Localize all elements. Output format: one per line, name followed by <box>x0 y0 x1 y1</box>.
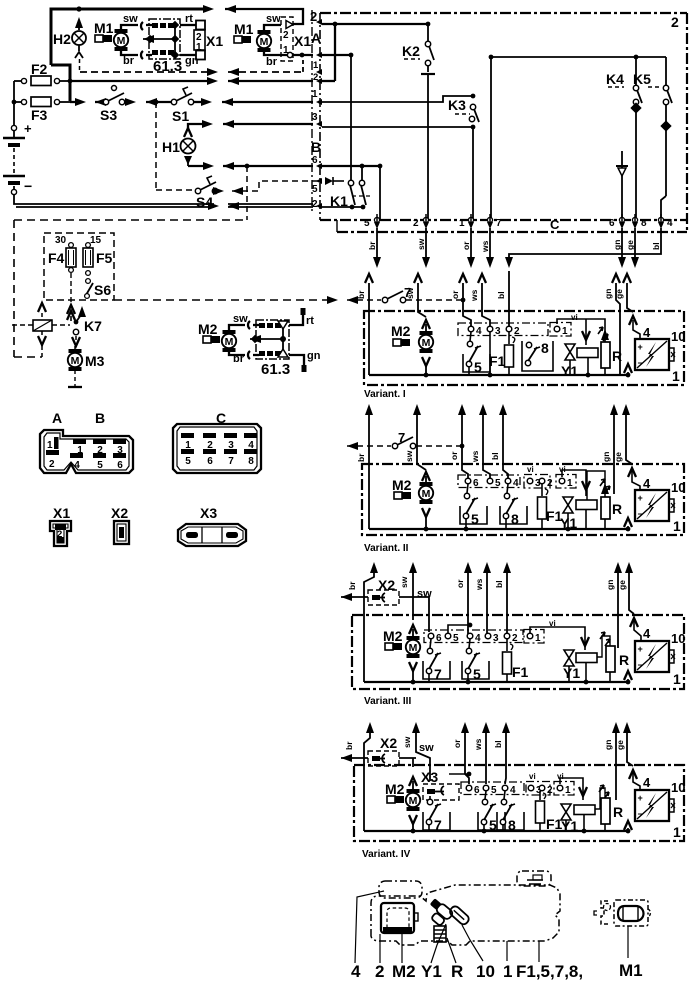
svg-text:ws: ws <box>469 289 479 302</box>
relay K7 <box>38 303 46 312</box>
wire: battery return bottom double line <box>14 195 214 207</box>
switch 7 row variant II <box>347 442 358 450</box>
box 2 border <box>320 13 687 232</box>
svg-text:1: 1 <box>185 440 191 451</box>
switch 7 row variant I <box>347 299 381 301</box>
svg-text:4: 4 <box>643 476 651 491</box>
svg-text:gn: gn <box>612 240 622 250</box>
terminal strip IV <box>461 782 524 795</box>
svg-text:Variant. III: Variant. III <box>364 696 411 707</box>
resistor R III <box>606 646 615 672</box>
svg-text:br: br <box>347 581 357 590</box>
svg-text:vi: vi <box>529 772 536 781</box>
valve Y1 IV <box>561 804 571 820</box>
bundle III wire labels <box>347 576 627 591</box>
svg-text:10: 10 <box>671 780 685 795</box>
svg-text:bl: bl <box>651 242 661 250</box>
svg-text:sw: sw <box>123 13 138 25</box>
svg-text:rt: rt <box>306 315 314 327</box>
svg-text:R: R <box>612 348 622 364</box>
svg-text:10: 10 <box>671 631 685 646</box>
resistor R IV <box>601 798 610 824</box>
wire: row 166 H1 bottom <box>188 165 208 167</box>
svg-text:10: 10 <box>671 329 685 344</box>
svg-text:br: br <box>123 55 135 67</box>
wire ws down <box>489 332 491 375</box>
bundle II wires <box>369 408 632 529</box>
Y1 plugs <box>423 897 454 927</box>
wire: dashed row 72 <box>80 71 213 73</box>
svg-text:1: 1 <box>283 45 289 56</box>
svg-text:2: 2 <box>283 30 289 41</box>
svg-text:or: or <box>452 739 462 748</box>
wire: row 102 S3 S1 <box>70 101 313 103</box>
bundle IV up arrows <box>366 722 374 733</box>
svg-text:M1: M1 <box>619 961 643 980</box>
svg-text:6: 6 <box>312 155 318 166</box>
svg-text:X2: X2 <box>111 505 128 521</box>
terminal strip II <box>458 475 520 488</box>
svg-text:15: 15 <box>90 235 102 246</box>
resistor R II <box>601 497 610 519</box>
inner dashed box <box>44 233 114 300</box>
svg-text:M2: M2 <box>383 628 403 644</box>
switch S6 <box>86 271 91 276</box>
svg-text:3: 3 <box>493 633 499 644</box>
svg-text:B: B <box>95 410 105 426</box>
svg-text:5: 5 <box>185 456 191 467</box>
svg-text:K2: K2 <box>402 43 420 59</box>
svg-text:gn: gn <box>601 452 611 462</box>
wire: K4/K5 feed row <box>491 56 666 58</box>
resistor R <box>598 327 608 341</box>
wire: row 204/207 to strip <box>208 202 219 210</box>
svg-text:4: 4 <box>248 440 254 451</box>
svg-text:−: − <box>24 178 32 194</box>
svg-text:sw: sw <box>266 13 281 25</box>
svg-text:K4: K4 <box>606 71 624 87</box>
svg-text:3: 3 <box>117 445 123 456</box>
box variant IV <box>354 765 684 841</box>
M2 housing <box>381 903 414 933</box>
svg-text:10: 10 <box>476 962 495 981</box>
svg-text:4: 4 <box>351 962 361 981</box>
svg-text:sw: sw <box>402 736 412 748</box>
bundle III up arrows <box>370 562 378 573</box>
wires C pins down to arrows <box>377 228 661 259</box>
switch 5 <box>470 332 471 341</box>
svg-text:X3: X3 <box>421 769 438 785</box>
svg-text:M1: M1 <box>234 21 254 37</box>
bus IV <box>364 830 628 832</box>
svg-text:vi: vi <box>549 619 556 628</box>
wiper unit outline <box>371 885 560 945</box>
svg-text:S6: S6 <box>94 282 111 298</box>
switch 8 <box>522 341 553 371</box>
fuse F1 III <box>506 639 508 651</box>
svg-text:R: R <box>613 804 623 820</box>
svg-text:2: 2 <box>375 962 384 981</box>
svg-text:gn: gn <box>307 350 321 362</box>
svg-text:Y1: Y1 <box>563 665 580 681</box>
fuse F1 IV <box>539 791 541 800</box>
svg-text:7: 7 <box>404 285 411 300</box>
svg-text:2: 2 <box>49 459 55 470</box>
bus I <box>369 374 628 376</box>
svg-text:rt: rt <box>185 13 193 25</box>
svg-text:X1: X1 <box>294 33 311 49</box>
svg-text:4: 4 <box>475 633 481 644</box>
svg-text:+: + <box>24 121 32 136</box>
svg-text:sw: sw <box>399 576 409 588</box>
svg-text:8: 8 <box>511 511 519 527</box>
terminal strip III <box>424 630 523 643</box>
relay coil I <box>577 348 598 358</box>
wire: middle tap <box>143 35 154 43</box>
svg-text:1: 1 <box>673 518 681 534</box>
svg-text:vi: vi <box>571 313 578 322</box>
svg-text:gn: gn <box>185 55 199 67</box>
svg-text:61.3: 61.3 <box>153 58 182 75</box>
switch 7 IV <box>429 796 431 801</box>
bundle II wire labels <box>356 450 623 463</box>
svg-text:2: 2 <box>547 785 553 796</box>
box variant I <box>364 311 684 385</box>
switch 5 II <box>467 484 468 493</box>
svg-text:1: 1 <box>313 60 319 71</box>
svg-text:1: 1 <box>562 326 568 337</box>
svg-text:4: 4 <box>510 785 516 796</box>
wire: motor top to connector <box>264 25 281 30</box>
svg-text:8: 8 <box>641 218 647 229</box>
svg-text:F2: F2 <box>31 61 48 77</box>
wire colour labels under C <box>367 238 661 253</box>
svg-text:1: 1 <box>77 445 83 456</box>
strip pin marks <box>316 19 322 209</box>
svg-text:or: or <box>455 579 465 588</box>
leader lines <box>355 891 539 963</box>
svg-text:1: 1 <box>312 89 318 100</box>
ground <box>74 370 76 386</box>
svg-text:sw: sw <box>404 450 414 462</box>
svg-text:2: 2 <box>97 445 103 456</box>
switch 7 III <box>430 639 431 648</box>
svg-text:F1: F1 <box>489 353 506 369</box>
svg-text:gn: gn <box>605 580 615 590</box>
svg-text:ws: ws <box>474 578 484 591</box>
svg-text:5: 5 <box>495 478 501 489</box>
relay coil IV <box>574 805 595 815</box>
relay coil II <box>576 500 597 510</box>
svg-text:30: 30 <box>55 235 67 246</box>
internal bus y24 <box>322 23 428 25</box>
svg-text:X3: X3 <box>200 505 217 521</box>
valve Y1 II <box>563 497 573 513</box>
svg-text:F1,5,7,8,: F1,5,7,8, <box>516 962 583 981</box>
box variant II <box>362 464 684 535</box>
svg-text:5: 5 <box>97 460 103 471</box>
svg-text:2: 2 <box>514 326 520 337</box>
svg-text:ws: ws <box>480 240 490 253</box>
bundle I chevrons <box>365 274 373 283</box>
svg-text:6: 6 <box>473 478 479 489</box>
svg-text:4: 4 <box>643 775 651 790</box>
svg-text:H1: H1 <box>162 139 180 155</box>
svg-text:br: br <box>266 56 278 68</box>
svg-text:7: 7 <box>496 218 502 229</box>
bundle III wires <box>364 566 634 682</box>
labels row <box>351 962 583 981</box>
diode on row 181 <box>325 177 333 185</box>
fuse F1 II <box>541 484 543 496</box>
wire pin1 to relay <box>585 319 587 345</box>
svg-text:3: 3 <box>228 440 234 451</box>
svg-text:bl: bl <box>496 291 506 299</box>
relay coil III <box>576 653 597 663</box>
wire: H2 to dashed row <box>79 59 81 71</box>
svg-text:sw: sw <box>419 742 434 754</box>
svg-text:K7: K7 <box>84 318 102 334</box>
svg-text:1: 1 <box>673 671 681 687</box>
svg-text:A: A <box>311 30 321 46</box>
svg-text:or: or <box>450 290 460 299</box>
wire: motor to coil box <box>121 22 152 59</box>
svg-text:61.3: 61.3 <box>261 361 290 378</box>
svg-text:M2: M2 <box>392 477 412 493</box>
svg-text:S3: S3 <box>100 107 117 123</box>
relay K3 <box>322 96 473 102</box>
svg-text:bl: bl <box>490 452 500 460</box>
svg-text:K3: K3 <box>448 97 466 113</box>
svg-text:sw: sw <box>233 313 248 325</box>
svg-text:sw: sw <box>417 588 432 600</box>
valve Y1 <box>565 344 575 360</box>
svg-text:M2: M2 <box>198 321 218 337</box>
pin1 to relay II <box>562 470 586 496</box>
svg-text:or: or <box>449 451 459 460</box>
svg-text:Variant. IV: Variant. IV <box>362 849 411 860</box>
svg-text:5: 5 <box>491 785 497 796</box>
svg-text:10: 10 <box>671 480 685 495</box>
wiper unit top-right tab <box>517 871 551 886</box>
svg-text:1: 1 <box>47 440 53 451</box>
svg-text:M2: M2 <box>392 962 416 981</box>
svg-text:5: 5 <box>471 511 479 527</box>
svg-text:1: 1 <box>673 824 681 840</box>
svg-text:5: 5 <box>473 666 481 682</box>
svg-text:F5: F5 <box>96 250 113 266</box>
svg-text:1: 1 <box>459 218 465 229</box>
wire row 55 inside <box>322 54 351 56</box>
wire: pin6 branch with diode <box>621 151 623 220</box>
svg-text:X1: X1 <box>206 33 223 49</box>
svg-text:2: 2 <box>512 633 518 644</box>
svg-text:bl: bl <box>494 580 504 588</box>
svg-text:R: R <box>619 652 629 668</box>
svg-text:5: 5 <box>474 359 482 375</box>
svg-text:6: 6 <box>609 218 615 229</box>
svg-text:M3: M3 <box>85 353 105 369</box>
svg-text:A: A <box>52 410 62 426</box>
M1 part right <box>601 901 608 924</box>
svg-text:ws: ws <box>473 738 483 751</box>
bundle I wires <box>369 271 633 375</box>
svg-text:X2: X2 <box>380 735 397 751</box>
svg-text:3: 3 <box>495 326 501 337</box>
svg-text:2: 2 <box>310 9 317 24</box>
svg-text:br: br <box>367 241 377 250</box>
R block <box>434 926 446 942</box>
pin1 to relay III <box>530 627 585 650</box>
switch S3 <box>103 99 108 104</box>
svg-text:F3: F3 <box>31 107 48 123</box>
switch 5 III <box>469 639 470 648</box>
svg-text:7: 7 <box>434 666 442 682</box>
motor M3 <box>74 346 76 351</box>
bundle II up arrows <box>365 404 373 415</box>
svg-text:1: 1 <box>503 962 512 981</box>
svg-text:S1: S1 <box>172 108 189 124</box>
svg-text:M2: M2 <box>391 323 411 339</box>
svg-text:4: 4 <box>667 218 673 229</box>
svg-text:vi: vi <box>527 465 534 474</box>
svg-text:1: 1 <box>672 368 680 384</box>
wire: row 124 H1 top <box>188 124 207 128</box>
svg-text:4: 4 <box>513 478 519 489</box>
svg-text:6: 6 <box>474 785 480 796</box>
X1 connector left unit <box>180 25 196 55</box>
svg-text:4: 4 <box>74 460 80 471</box>
box variant III <box>352 615 684 689</box>
switch S1 <box>171 99 176 104</box>
svg-text:4: 4 <box>643 626 651 641</box>
10 slot <box>448 905 470 926</box>
svg-text:gn: gn <box>603 289 613 299</box>
svg-text:Variant. II: Variant. II <box>364 543 409 554</box>
sensor 4/10 <box>629 316 637 325</box>
wiper unit top-left tab <box>379 881 422 898</box>
svg-text:2: 2 <box>207 440 213 451</box>
svg-text:B: B <box>311 139 321 155</box>
svg-text:ws: ws <box>470 450 480 463</box>
svg-text:Variant. I: Variant. I <box>364 389 406 400</box>
svg-text:br: br <box>344 741 354 750</box>
svg-text:6: 6 <box>436 633 442 644</box>
svg-text:1: 1 <box>535 633 541 644</box>
svg-text:Y1: Y1 <box>421 962 442 981</box>
rt / gn tails <box>289 314 304 365</box>
svg-text:5: 5 <box>312 184 318 195</box>
svg-text:4: 4 <box>476 326 482 337</box>
svg-text:X1: X1 <box>53 505 70 521</box>
svg-text:R: R <box>612 501 622 517</box>
svg-text:br: br <box>356 453 366 462</box>
svg-text:5: 5 <box>364 218 370 229</box>
svg-text:5: 5 <box>453 633 459 644</box>
svg-text:F1: F1 <box>512 664 529 680</box>
wire: long dashed row to variants <box>114 299 330 301</box>
terminal strip I <box>458 323 548 336</box>
svg-text:M1: M1 <box>94 20 114 36</box>
wire: row 81 F2 to strip <box>70 80 213 82</box>
node: H2 tap <box>76 6 81 11</box>
X1 dashed strip right unit <box>281 17 293 61</box>
dashed region top edge <box>14 219 247 221</box>
switch 8 IV <box>504 791 505 799</box>
svg-text:8: 8 <box>248 456 254 467</box>
switch 5 IV <box>485 791 486 799</box>
svg-text:gn: gn <box>603 740 613 750</box>
svg-text:6: 6 <box>117 460 123 471</box>
svg-text:6: 6 <box>207 456 213 467</box>
jog or to pin5 <box>448 625 470 633</box>
switch S4 row 192 <box>156 189 195 191</box>
wire: F4 down to K7 <box>70 273 72 303</box>
svg-text:H2: H2 <box>53 31 71 47</box>
svg-text:bl: bl <box>493 740 503 748</box>
svg-text:4: 4 <box>643 325 651 340</box>
svg-text:1: 1 <box>565 785 571 796</box>
svg-text:br: br <box>356 290 366 299</box>
wire: battery feed left <box>14 81 70 125</box>
bus III <box>364 681 628 683</box>
bundle IV wires <box>364 726 633 831</box>
switch 8 II <box>507 484 508 493</box>
node: battery junction F3 row <box>12 100 17 105</box>
svg-text:or: or <box>461 241 471 250</box>
svg-text:7: 7 <box>398 430 405 445</box>
svg-text:2: 2 <box>413 218 419 229</box>
svg-text:2: 2 <box>547 478 553 489</box>
svg-text:C: C <box>550 217 560 232</box>
valve Y1 III <box>564 650 574 666</box>
bus II <box>369 528 628 530</box>
bundle IV wire labels <box>344 736 625 751</box>
wire: top supply line <box>51 9 209 101</box>
svg-text:1: 1 <box>196 42 202 53</box>
svg-text:2: 2 <box>671 14 679 30</box>
svg-text:1: 1 <box>567 478 573 489</box>
svg-text:8: 8 <box>541 340 549 356</box>
transformer 61.3 box <box>149 19 180 59</box>
svg-text:K5: K5 <box>633 71 651 87</box>
svg-text:M2: M2 <box>385 781 405 797</box>
svg-text:R: R <box>451 962 463 981</box>
svg-text:3: 3 <box>312 112 318 123</box>
svg-text:sw: sw <box>416 238 426 250</box>
wire: motor bottom row 55 <box>264 52 287 55</box>
node: dashed drop from S1 row <box>154 100 159 105</box>
fuse F3 <box>21 99 26 104</box>
svg-text:F4: F4 <box>48 250 65 266</box>
pin1 to relay IV <box>560 778 583 800</box>
svg-text:ge: ge <box>625 240 635 250</box>
wire: continuation to X1 right unit <box>225 5 236 13</box>
svg-text:7: 7 <box>228 456 234 467</box>
svg-text:2: 2 <box>312 199 318 210</box>
